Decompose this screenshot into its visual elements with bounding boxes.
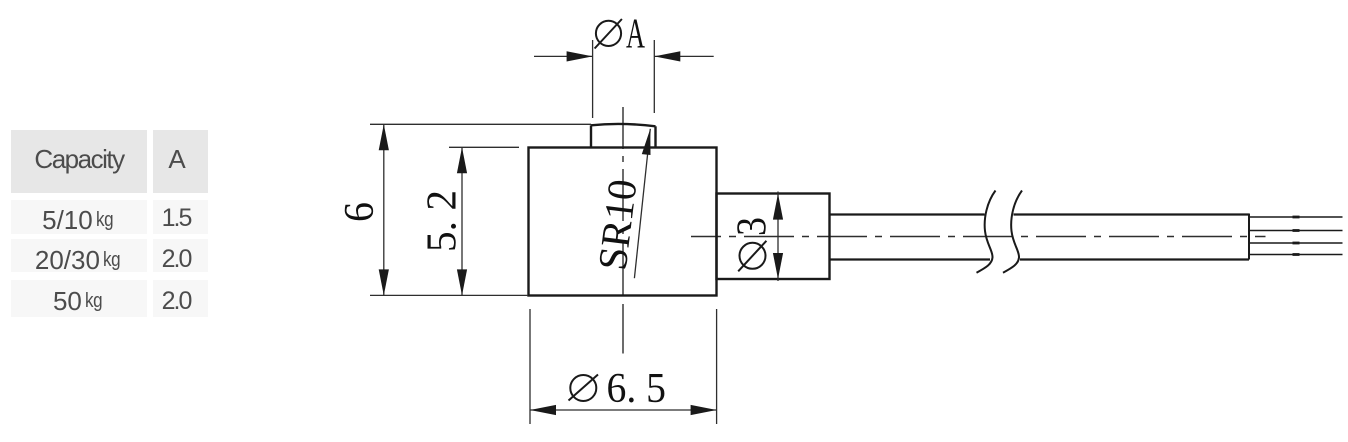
- load cell body outline: [529, 148, 717, 296]
- dimension ⌀6.5 dimension line and arrows: [530, 405, 717, 415]
- dimension ⌀6.5 extension lines: [530, 309, 717, 424]
- row 50kg: [11, 280, 147, 317]
- value 2.0: [153, 280, 208, 317]
- dimension ⌀6.5 label: [569, 366, 667, 412]
- dimension A dimension line and arrows: [534, 51, 714, 61]
- value 1.5: [153, 200, 208, 234]
- table header Capacity: [11, 130, 147, 193]
- dimension ⌀3 label: [730, 217, 776, 271]
- dimension 6 extension lines: [370, 124, 591, 295]
- wire 3: [1249, 242, 1343, 244]
- vertical center line: [622, 107, 624, 354]
- wire 4: [1249, 254, 1343, 256]
- dimension 6 label: [337, 202, 383, 222]
- row 20/30kg: [11, 239, 147, 272]
- table header A: [153, 130, 208, 193]
- svg-text:5. 2: 5. 2: [420, 190, 466, 252]
- capacity table: [10, 129, 12, 131]
- dimension 5.2 dimension line and arrows: [457, 147, 467, 295]
- svg-text:A: A: [626, 11, 645, 57]
- cable break symbol right: [1003, 191, 1022, 273]
- wire 2: [1249, 230, 1343, 232]
- cable break symbol left: [977, 191, 996, 273]
- cable boss: [717, 194, 830, 280]
- horizontal center line: [691, 236, 1266, 238]
- row 5/10kg: [11, 200, 147, 234]
- dimension A extension lines: [593, 40, 655, 118]
- cable end cap: [1248, 214, 1250, 260]
- dimension 6 dimension line and arrows: [379, 124, 389, 295]
- button (spherical load point): [591, 124, 656, 148]
- dimension 5.2 extension line: [449, 146, 519, 148]
- cable bottom line: [830, 258, 1250, 260]
- dimension A label ⌀A: [595, 11, 646, 57]
- svg-text:6: 6: [337, 202, 383, 222]
- wire 1: [1249, 216, 1343, 218]
- svg-text:3: 3: [730, 217, 776, 236]
- dimension 5.2 label: [420, 190, 466, 252]
- SR10 label: [589, 177, 646, 273]
- SR10 leader line and arrow: [634, 129, 650, 278]
- dimension ⌀3 dimension line and arrows: [773, 192, 783, 282]
- cable top line: [830, 213, 1250, 215]
- value 2.0: [153, 239, 208, 272]
- svg-text:6. 5: 6. 5: [607, 366, 667, 412]
